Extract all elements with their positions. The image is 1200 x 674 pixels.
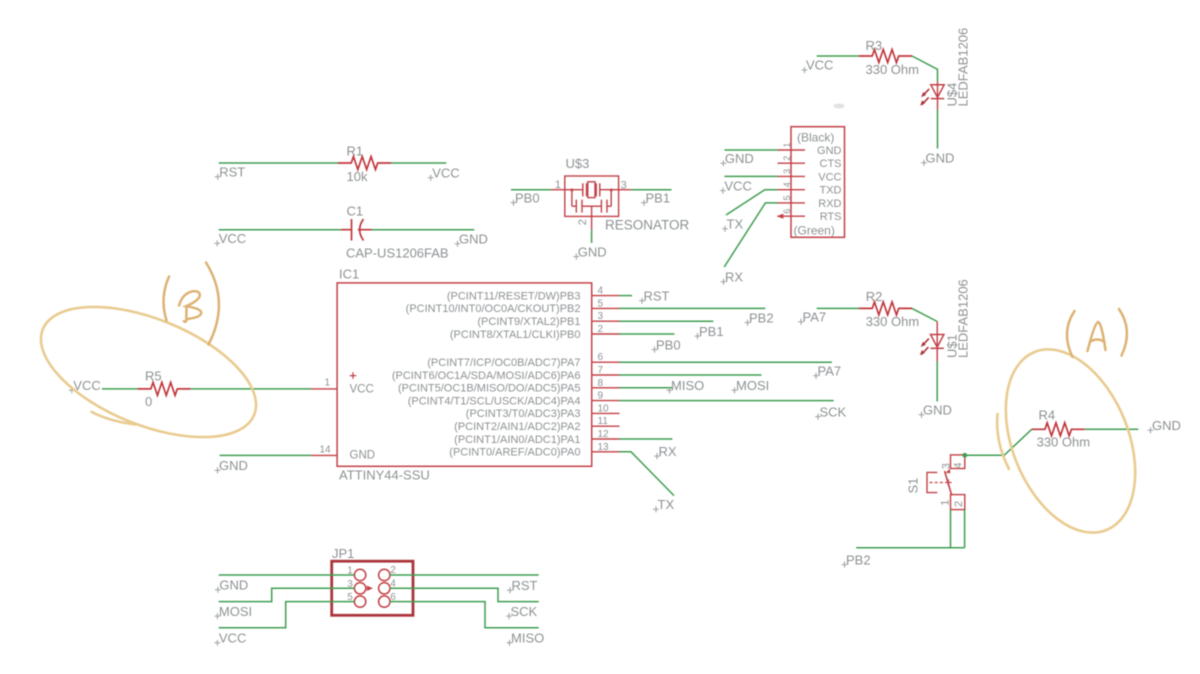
- node GND: [721, 151, 754, 166]
- node MOSI: [732, 378, 770, 393]
- pin3 arrow: [367, 586, 373, 591]
- svg-text:(Black): (Black): [797, 131, 834, 145]
- wire MOSI to pin3: [219, 588, 355, 601]
- node MOSI: [215, 604, 253, 619]
- svg-text:VCC: VCC: [432, 166, 459, 181]
- svg-text:MISO: MISO: [671, 378, 704, 393]
- wire GND to pin1: [724, 149, 777, 151]
- wire PA7 to R2: [817, 307, 859, 309]
- svg-text:(PCINT7/ICP/OC0B/ADC7)PA7: (PCINT7/ICP/OC0B/ADC7)PA7: [427, 357, 580, 369]
- wire R3 to LED: [912, 56, 938, 82]
- svg-text:GND: GND: [578, 244, 607, 259]
- pin RTS: [777, 209, 842, 224]
- svg-text:3: 3: [941, 463, 953, 469]
- svg-text:0: 0: [145, 394, 152, 409]
- node VCC: [802, 58, 834, 73]
- svg-text:(PCINT3/T0/ADC3)PA3: (PCINT3/T0/ADC3)PA3: [466, 408, 581, 420]
- pin 12 PA1: [454, 429, 619, 446]
- node PB2: [842, 552, 871, 567]
- svg-text:IC1: IC1: [339, 267, 359, 282]
- svg-text:R4: R4: [1039, 408, 1056, 423]
- svg-text:GND: GND: [725, 151, 754, 166]
- pin 9 PA4: [408, 391, 620, 408]
- wire R5 to pin1: [191, 388, 311, 390]
- svg-text:VCC: VCC: [806, 58, 833, 73]
- pin VCC: [778, 169, 842, 184]
- wire pin4 to SCK: [390, 588, 539, 601]
- wire S1 to R4: [965, 429, 1032, 455]
- svg-text:14: 14: [319, 444, 331, 455]
- node RST: [215, 165, 245, 180]
- svg-text:2: 2: [598, 324, 604, 335]
- svg-text:1: 1: [940, 500, 952, 506]
- svg-text:R2: R2: [866, 289, 883, 304]
- resistor R3: [859, 50, 912, 63]
- svg-text:6: 6: [598, 352, 604, 363]
- svg-text:RXD: RXD: [818, 198, 841, 210]
- annotation ellipse B: [23, 280, 274, 464]
- svg-text:GND: GND: [817, 145, 842, 157]
- svg-text:TX: TX: [727, 217, 744, 232]
- pin 14 stub: [311, 444, 337, 455]
- svg-text:VCC: VCC: [219, 631, 246, 646]
- svg-text:4: 4: [782, 182, 792, 187]
- wire pin2 to PB0: [620, 333, 675, 335]
- pin 13 PA0: [449, 442, 619, 459]
- resistor R2: [859, 302, 912, 315]
- node MISO: [507, 631, 545, 646]
- svg-text:PA7: PA7: [803, 309, 827, 324]
- svg-text:S1: S1: [906, 478, 921, 494]
- node VCC: [720, 178, 752, 193]
- wire pin8 to MISO: [620, 387, 673, 389]
- svg-text:330 Ohm: 330 Ohm: [866, 314, 919, 329]
- pin 5 PB2: [406, 298, 620, 315]
- header body: [332, 561, 413, 615]
- svg-text:VCC: VCC: [219, 231, 246, 246]
- svg-text:RST: RST: [219, 165, 245, 180]
- resistor R4: [1032, 423, 1085, 436]
- svg-text:R5: R5: [145, 369, 162, 384]
- svg-text:4: 4: [598, 286, 604, 297]
- wire pin6 to PA7: [620, 361, 832, 363]
- wire VCC to pin5: [219, 602, 355, 628]
- svg-text:12: 12: [598, 429, 610, 440]
- wire RX to pin5: [724, 203, 777, 267]
- svg-text:GND: GND: [350, 450, 376, 462]
- svg-text:MOSI: MOSI: [219, 604, 252, 619]
- wire pin6 to MISO: [390, 602, 539, 628]
- svg-text:GND: GND: [219, 458, 248, 473]
- svg-text:5: 5: [598, 298, 604, 309]
- svg-text:10: 10: [598, 403, 610, 414]
- svg-text:1: 1: [324, 377, 330, 388]
- svg-text:GND: GND: [923, 403, 952, 418]
- faint smudge artifact: [834, 104, 845, 109]
- wire pin4 to RST: [620, 295, 633, 297]
- svg-text:11: 11: [598, 416, 609, 427]
- svg-text:SCK: SCK: [511, 604, 538, 619]
- wire LED to GND: [937, 110, 939, 149]
- pin 10 PA3: [466, 403, 620, 420]
- svg-text:R1: R1: [347, 144, 364, 159]
- svg-text:VCC: VCC: [818, 171, 841, 183]
- node TX: [653, 497, 674, 512]
- pin circles: [354, 569, 390, 607]
- switch S1: [927, 455, 965, 510]
- svg-text:7: 7: [598, 365, 604, 376]
- node RX: [721, 270, 744, 285]
- node VCC: [215, 631, 247, 646]
- svg-text:GND: GND: [459, 232, 488, 247]
- node PB0: [511, 191, 540, 206]
- wire U$3 pin3 to PB1: [631, 189, 671, 191]
- svg-text:1: 1: [782, 142, 792, 147]
- svg-text:(PCINT0/AREF/ADC0)PA0: (PCINT0/AREF/ADC0)PA0: [449, 447, 580, 459]
- svg-text:330 Ohm: 330 Ohm: [866, 62, 919, 77]
- svg-text:5: 5: [782, 195, 792, 200]
- svg-text:13: 13: [598, 442, 610, 453]
- wire C1 to GND: [372, 229, 475, 231]
- svg-text:RTS: RTS: [820, 211, 842, 223]
- svg-text:10k: 10k: [347, 169, 368, 184]
- svg-text:CTS: CTS: [820, 158, 842, 170]
- wire R1 to VCC: [391, 162, 446, 164]
- svg-text:3: 3: [598, 311, 604, 322]
- pin GND: [778, 142, 842, 157]
- svg-text:PA7: PA7: [818, 364, 842, 379]
- node VCC: [69, 378, 101, 393]
- svg-text:(PCINT9/XTAL2)PB1: (PCINT9/XTAL2)PB1: [477, 316, 580, 328]
- wire LED to GND: [936, 362, 938, 402]
- svg-text:GND: GND: [219, 578, 248, 593]
- wire VCC to C1: [219, 229, 341, 231]
- annotation ellipse A: [981, 330, 1160, 551]
- node RX: [654, 444, 677, 459]
- node GND: [919, 403, 952, 418]
- pin CTS: [778, 156, 842, 171]
- node GND: [573, 244, 606, 259]
- svg-text:C1: C1: [347, 204, 364, 219]
- capacitor C1: [341, 219, 372, 241]
- svg-text:MOSI: MOSI: [736, 378, 769, 393]
- annotation ellipse B double stroke: [92, 412, 136, 425]
- pin 7 PA6: [392, 365, 620, 382]
- resistor R1: [338, 157, 391, 170]
- svg-text:VCC: VCC: [724, 178, 751, 193]
- svg-text:VCC: VCC: [73, 378, 100, 393]
- node MISO: [667, 378, 705, 393]
- svg-text:(PCINT1/AIN0/ADC1)PA1: (PCINT1/AIN0/ADC1)PA1: [454, 434, 580, 446]
- node RST: [639, 289, 669, 304]
- node SCK: [815, 404, 846, 419]
- pin 8 PA5: [398, 378, 620, 395]
- svg-text:6: 6: [782, 209, 792, 214]
- wire R4 to GND: [1085, 428, 1139, 430]
- svg-text:8: 8: [598, 378, 604, 389]
- svg-text:3: 3: [782, 169, 792, 174]
- node PB0: [652, 337, 681, 352]
- svg-text:3: 3: [621, 180, 627, 192]
- node VCC: [214, 231, 246, 246]
- svg-text:(PCINT11/RESET/DW)PB3: (PCINT11/RESET/DW)PB3: [447, 290, 581, 302]
- node TX: [722, 217, 743, 232]
- svg-text:RX: RX: [725, 270, 743, 285]
- resistor R5: [138, 382, 191, 395]
- node PB2: [745, 310, 774, 325]
- svg-text:(PCINT2/AIN1/ADC2)PA2: (PCINT2/AIN1/ADC2)PA2: [454, 421, 580, 433]
- pin 1 stub: [311, 377, 337, 389]
- wire VCC to pin3: [724, 175, 777, 177]
- svg-text:1: 1: [555, 179, 561, 191]
- pin TXD: [778, 182, 842, 197]
- pin 6 PA7: [427, 352, 619, 369]
- pin 2 PB0: [450, 324, 620, 341]
- node PB1: [695, 324, 724, 339]
- svg-text:4: 4: [953, 462, 965, 468]
- svg-text:JP1: JP1: [332, 546, 354, 561]
- wire pin3 to PB1: [620, 320, 714, 322]
- svg-text:TXD: TXD: [820, 185, 842, 197]
- svg-text:SCK: SCK: [820, 404, 847, 419]
- svg-text:PB2: PB2: [749, 310, 774, 325]
- svg-text:VCC: VCC: [350, 384, 374, 396]
- pin 4 PB3: [447, 286, 620, 303]
- wire pin5 to PB2: [620, 307, 766, 309]
- node GND: [215, 578, 248, 593]
- led U$1: [920, 322, 944, 362]
- ic body: [337, 283, 592, 466]
- annotation ellipse A double stroke: [997, 414, 1009, 469]
- svg-text:(PCINT10/INT0/OC0A/CKOUT)PB2: (PCINT10/INT0/OC0A/CKOUT)PB2: [406, 303, 581, 315]
- wire GND to pin1: [219, 574, 355, 576]
- svg-text:PB2: PB2: [846, 552, 871, 567]
- connector body: [791, 127, 845, 238]
- svg-text:2: 2: [953, 501, 965, 507]
- node PB1: [641, 191, 670, 206]
- svg-text:(PCINT8/XTAL1/CLKI)PB0: (PCINT8/XTAL1/CLKI)PB0: [450, 329, 581, 341]
- svg-text:(PCINT5/OC1B/MISO/DO/ADC5)PA5: (PCINT5/OC1B/MISO/DO/ADC5)PA5: [398, 383, 581, 395]
- node SCK: [506, 604, 537, 619]
- node RST: [507, 578, 537, 593]
- svg-text:PB1: PB1: [646, 191, 671, 206]
- svg-text:RST: RST: [644, 289, 670, 304]
- svg-text:(Green): (Green): [794, 224, 835, 238]
- svg-text:PB0: PB0: [656, 337, 681, 352]
- node GND: [215, 458, 248, 473]
- svg-text:GND: GND: [1152, 418, 1181, 433]
- led U$4: [920, 82, 944, 110]
- resonator U$3: [551, 176, 631, 230]
- wire GND to pin14: [220, 454, 311, 456]
- svg-text:RESONATOR: RESONATOR: [605, 218, 690, 233]
- svg-text:GND: GND: [926, 151, 955, 166]
- svg-text:LEDFAB1206: LEDFAB1206: [956, 279, 971, 358]
- svg-text:(PCINT4/T1/SCL/USCK/ADC4)PA4: (PCINT4/T1/SCL/USCK/ADC4)PA4: [408, 395, 581, 407]
- wire R2 to LED: [912, 308, 937, 321]
- node PA7: [813, 364, 841, 379]
- node PA7: [798, 309, 826, 324]
- svg-text:RST: RST: [512, 578, 538, 593]
- node GND: [455, 232, 488, 247]
- svg-text:MISO: MISO: [511, 631, 544, 646]
- svg-text:PB0: PB0: [515, 191, 540, 206]
- svg-text:ATTINY44-SSU: ATTINY44-SSU: [339, 468, 430, 483]
- pin 3 PB1: [477, 311, 619, 328]
- wire TX to pin4: [726, 190, 778, 215]
- wire U$3 pin2 to GND: [591, 230, 593, 243]
- node VCC: [428, 166, 460, 181]
- svg-text:PB1: PB1: [699, 324, 724, 339]
- svg-text:R3: R3: [866, 38, 883, 53]
- node GND: [1148, 418, 1181, 433]
- svg-text:TX: TX: [658, 497, 675, 512]
- svg-text:2: 2: [782, 156, 792, 161]
- svg-text:RX: RX: [659, 444, 677, 459]
- wire pin9 to SCK: [620, 400, 834, 402]
- svg-text:2: 2: [577, 219, 589, 225]
- wire VCC to R3: [817, 55, 859, 57]
- svg-text:(PCINT6/OC1A/SDA/MOSI/ADC6)PA6: (PCINT6/OC1A/SDA/MOSI/ADC6)PA6: [392, 370, 581, 382]
- annotation (A) text: [1067, 309, 1127, 357]
- wire pin12 to RX: [620, 438, 673, 440]
- svg-text:330 Ohm: 330 Ohm: [1037, 435, 1090, 450]
- wire pin13 to TX: [620, 452, 675, 496]
- wire S1 to PB2: [856, 510, 964, 548]
- wire pin2 to RST: [390, 574, 539, 576]
- annotation (B) text: [164, 263, 219, 345]
- junction: [962, 453, 967, 458]
- node GND: [921, 151, 954, 166]
- wire RST to R1: [219, 162, 338, 164]
- wire VCC to R5: [102, 388, 138, 390]
- svg-text:9: 9: [598, 391, 604, 402]
- svg-text:U$3: U$3: [566, 156, 590, 171]
- pin RXD: [778, 195, 842, 210]
- wire pin7 to MOSI: [620, 374, 762, 376]
- pin 11 PA2: [454, 416, 619, 433]
- svg-text:LEDFAB1206: LEDFAB1206: [956, 28, 971, 107]
- wire PB0 to U$3 pin1: [511, 189, 551, 191]
- svg-text:CAP-US1206FAB: CAP-US1206FAB: [346, 246, 449, 261]
- power + mark: [350, 372, 357, 379]
